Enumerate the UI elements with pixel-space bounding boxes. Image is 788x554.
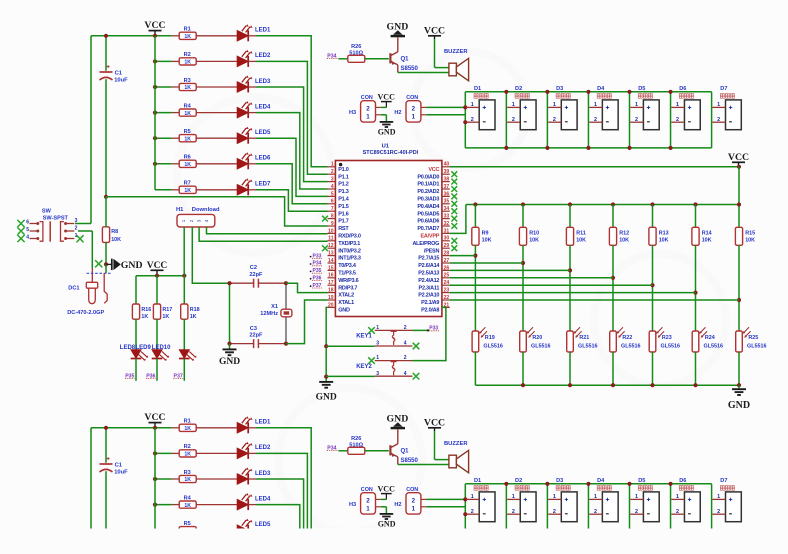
faint watermark circles bbox=[177, 52, 726, 532]
repeated schematic (bottom tile) bbox=[17, 412, 766, 554]
